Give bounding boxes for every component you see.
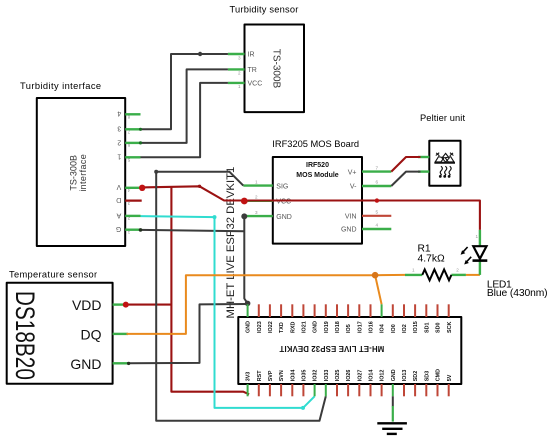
bend dot VCC line right	[375, 198, 379, 202]
ESP32 bottom pin IO35	[302, 370, 308, 397]
ESP32 bottom pin IO14	[369, 370, 375, 397]
svg-text:DQ: DQ	[81, 326, 102, 342]
ESP32 top pin IO19	[324, 304, 330, 333]
svg-text:2: 2	[238, 71, 241, 76]
svg-text:Blue (430nm): Blue (430nm)	[487, 288, 548, 299]
wire black G pin to MOS GND vertical	[141, 230, 245, 231]
svg-text:IO19: IO19	[324, 321, 330, 333]
ESP32 bottom pin IO12	[380, 370, 386, 397]
bend dot cyan 2	[301, 406, 305, 410]
wire IR net: interface pin3 to sensor IR	[141, 54, 228, 129]
svg-text:RST: RST	[257, 370, 263, 381]
turbidity sensor pin TR	[228, 67, 257, 76]
svg-text:SD2: SD2	[413, 371, 419, 382]
svg-text:MH-ET LIVE ESP32 DEVKIT: MH-ET LIVE ESP32 DEVKIT	[279, 344, 384, 353]
svg-text:IO32: IO32	[313, 370, 319, 382]
svg-text:IO15: IO15	[413, 321, 419, 333]
svg-text:2: 2	[127, 216, 130, 221]
svg-text:IO16: IO16	[369, 321, 375, 333]
svg-text:4: 4	[117, 110, 121, 117]
ESP32 bottom pin IO34	[290, 370, 296, 397]
junction dot SIG corner	[154, 170, 158, 174]
svg-text:7: 7	[127, 130, 130, 135]
ESP32 top pin IO21	[302, 304, 308, 333]
svg-text:RXD: RXD	[290, 322, 296, 333]
interface pin 7 label 3	[117, 125, 140, 135]
peltier unit P1 body	[420, 113, 465, 186]
ground symbol	[377, 423, 407, 434]
MOS pin GND left	[243, 210, 292, 221]
interface pin 5 label 1	[117, 153, 140, 163]
svg-text:2: 2	[117, 138, 121, 145]
svg-text:IO21: IO21	[302, 321, 308, 333]
temp sensor pin GND	[70, 356, 128, 372]
peltier icon	[434, 153, 455, 163]
svg-text:D: D	[116, 196, 121, 203]
svg-text:1: 1	[117, 153, 121, 160]
svg-text:4: 4	[376, 223, 379, 228]
svg-text:V+: V+	[348, 169, 357, 176]
svg-text:IO33: IO33	[324, 370, 330, 382]
svg-text:GND: GND	[70, 356, 101, 372]
ESP32 bottom pin IO26	[346, 370, 352, 397]
svg-text:3: 3	[117, 125, 121, 132]
svg-text:IO23: IO23	[257, 321, 263, 333]
wire red vertical branch to 3V3	[171, 186, 249, 394]
peltier pin 1	[418, 156, 429, 158]
svg-text:IO35: IO35	[302, 370, 308, 382]
svg-text:TR: TR	[248, 67, 257, 74]
svg-text:MH-ET LIVE ESP32 DEVKIT1: MH-ET LIVE ESP32 DEVKIT1	[225, 167, 237, 319]
LED1	[461, 230, 548, 299]
svg-text:IO17: IO17	[357, 321, 363, 333]
svg-text:3: 3	[127, 201, 130, 206]
ESP32 top pin IO15	[413, 304, 419, 333]
svg-text:G: G	[116, 225, 121, 232]
svg-text:3: 3	[238, 55, 241, 60]
wire red MOS V+ to peltier pin1	[391, 157, 420, 172]
svg-text:7: 7	[376, 165, 379, 170]
svg-text:GND: GND	[341, 227, 357, 234]
svg-text:SVN: SVN	[279, 370, 285, 381]
svg-text:1: 1	[476, 234, 479, 239]
wire cyan A net to IO32	[141, 216, 315, 408]
wire end dot pin3	[139, 128, 142, 131]
ESP32 bottom pin IO13	[402, 370, 408, 397]
ESP32 bottom pin GND	[391, 369, 397, 396]
svg-text:IO13: IO13	[402, 370, 408, 382]
svg-text:Temperature sensor: Temperature sensor	[9, 269, 97, 279]
turbidity interface U3 body	[20, 81, 125, 246]
svg-text:A: A	[116, 211, 121, 218]
wire black SIG net from MOS SIG to IO33	[156, 172, 326, 421]
svg-text:IRF520: IRF520	[306, 162, 329, 169]
svg-text:3: 3	[255, 210, 258, 215]
MOS pin V+	[348, 165, 392, 176]
svg-text:V-: V-	[350, 184, 357, 191]
ESP32 bottom pin RST	[257, 370, 263, 396]
ESP32 top pin IO5	[346, 304, 352, 333]
wire black MOS GND down to ESP32 GND	[244, 216, 247, 303]
ESP32 bottom pin IO27	[357, 370, 363, 397]
MOS pin V-	[350, 180, 391, 191]
wire red V to MOS VCC and LED	[141, 186, 480, 230]
ESP32 bottom pin CMD	[436, 369, 442, 396]
svg-text:Peltier unit: Peltier unit	[420, 113, 465, 123]
interface pin 6 label 2	[117, 138, 140, 148]
bend dot red	[198, 185, 201, 188]
MOS pin VIN (unconnected red stub)	[345, 210, 391, 221]
ESP32 bottom pin SVP	[268, 370, 274, 396]
svg-text:SVP: SVP	[268, 370, 274, 381]
wire end dot G pin	[139, 228, 143, 232]
wire orange DQ net to IO4 and R1	[127, 275, 406, 334]
junction dot MOS GND	[241, 213, 247, 219]
svg-text:2: 2	[456, 268, 459, 273]
svg-text:IR: IR	[248, 52, 255, 59]
wire orange branch to IO4	[375, 275, 382, 304]
svg-text:Turbidity sensor: Turbidity sensor	[230, 5, 299, 15]
svg-text:SD0: SD0	[436, 323, 442, 334]
svg-text:2: 2	[255, 195, 258, 200]
ESP32 bottom pin SD3	[424, 371, 430, 397]
wire orange R1 to LED	[466, 274, 480, 276]
svg-text:V: V	[116, 183, 121, 190]
svg-text:IO22: IO22	[268, 321, 274, 333]
peltier heat squiggles	[440, 167, 452, 178]
wire green into ground symbol	[392, 406, 394, 422]
svg-text:interface: interface	[78, 154, 88, 192]
interface pin 4 label V	[116, 183, 140, 193]
IRF3205 MOS board U4 body	[272, 139, 362, 244]
svg-text:IO26: IO26	[346, 370, 352, 382]
svg-text:SCK: SCK	[447, 322, 453, 333]
ESP32 top pin GND	[246, 304, 252, 333]
ESP32 devkit U5 body	[225, 167, 461, 384]
svg-text:IO25: IO25	[335, 370, 341, 382]
svg-text:TXD: TXD	[279, 322, 285, 333]
wire black temp GND to ESP32 GND	[128, 304, 246, 363]
svg-text:8: 8	[127, 115, 130, 120]
svg-text:1: 1	[412, 268, 415, 273]
ESP32 top pin IO18	[335, 304, 341, 333]
ESP32 top pin SD0	[436, 304, 442, 333]
ESP32 top pin IO2	[402, 304, 408, 333]
ESP32 top pin IO17	[357, 304, 363, 333]
ESP32 bottom pin 5V	[447, 374, 453, 396]
ESP32 bottom pin SVN	[279, 370, 285, 396]
svg-text:6: 6	[127, 143, 130, 148]
turbidity sensor pin VCC	[228, 81, 262, 90]
wire red VDD from temp sensor	[128, 304, 171, 306]
temp sensor pin DQ	[81, 326, 129, 342]
ESP32 top pin IO16	[369, 304, 375, 333]
resistor R1	[405, 243, 466, 280]
svg-text:GND: GND	[391, 369, 397, 381]
ESP32 top pin IO0	[391, 304, 397, 333]
svg-text:IO4: IO4	[380, 324, 386, 333]
svg-text:MOS Module: MOS Module	[296, 172, 338, 179]
svg-text:SD3: SD3	[424, 371, 430, 382]
wire end dot temp GND	[127, 362, 130, 365]
wire end dot pin2	[139, 141, 142, 144]
svg-text:IO27: IO27	[357, 370, 363, 382]
ESP32 top pin IO22	[268, 304, 274, 333]
svg-text:SD1: SD1	[424, 323, 430, 334]
MOS pin SIG	[243, 179, 288, 190]
ESP32 top pin IO23	[257, 304, 263, 333]
svg-text:5: 5	[376, 210, 379, 215]
svg-text:GND: GND	[276, 214, 292, 221]
ESP32 bottom pin 3V3	[246, 372, 252, 397]
svg-text:3V3: 3V3	[246, 372, 252, 382]
svg-text:4: 4	[127, 188, 130, 193]
ESP32 bottom pin IO32	[313, 370, 319, 397]
ESP32 top pin SCK	[447, 304, 453, 333]
junction dot VCC line at MOS	[241, 198, 248, 205]
ESP32 top pin SD1	[424, 304, 430, 333]
interface pin 1 label G	[116, 225, 141, 235]
svg-text:IO2: IO2	[402, 324, 408, 333]
svg-text:4.7kΩ: 4.7kΩ	[418, 254, 445, 265]
interface pin 8 label 4	[117, 110, 140, 120]
svg-text:IO18: IO18	[335, 321, 341, 333]
bend dot cyan 1	[213, 215, 217, 219]
junction dot orange	[372, 272, 379, 279]
svg-text:VDD: VDD	[72, 297, 102, 313]
peltier pin 2	[418, 170, 429, 172]
wire VCC net: interface pin1 to sensor VCC	[141, 83, 228, 157]
svg-text:Turbidity interface: Turbidity interface	[20, 81, 102, 91]
ESP32 bottom pin IO25	[335, 370, 341, 397]
ESP32 bottom pin SD2	[413, 371, 419, 397]
interface pin 2 label A	[116, 211, 140, 221]
svg-text:5V: 5V	[447, 374, 453, 381]
junction dot V pin	[139, 185, 145, 191]
temp sensor pin VDD	[72, 297, 128, 313]
svg-text:TS-300B: TS-300B	[271, 49, 282, 89]
ESP32 top pin IO4	[380, 304, 386, 333]
MOS pin VCC	[243, 195, 291, 206]
wire black from ESP32 GND pin	[392, 396, 394, 406]
svg-text:DS18B20: DS18B20	[10, 291, 40, 380]
svg-text:SIG: SIG	[276, 183, 288, 190]
svg-text:1: 1	[255, 179, 258, 184]
svg-text:IO5: IO5	[346, 324, 352, 333]
svg-text:IRF3205 MOS Board: IRF3205 MOS Board	[272, 139, 359, 149]
svg-text:VCC: VCC	[248, 81, 263, 88]
wire black MOS V- to peltier pin2	[391, 172, 420, 186]
svg-text:IO0: IO0	[391, 324, 397, 333]
ESP32 bottom pin IO33	[324, 370, 330, 397]
svg-text:GND: GND	[246, 321, 252, 333]
svg-text:IO14: IO14	[369, 370, 375, 382]
ESP32 top pin GND	[313, 304, 319, 333]
junction on IR wire	[198, 52, 202, 56]
svg-text:1: 1	[238, 84, 241, 89]
turbidity sensor U2 body	[230, 5, 305, 113]
svg-text:1: 1	[127, 230, 130, 235]
ESP32 top pin RXD	[290, 304, 296, 333]
temperature sensor U1 body	[7, 269, 113, 384]
junction dot ESP32 top GND	[245, 301, 251, 307]
wire TR net: interface pin2 to sensor TR	[141, 69, 228, 142]
svg-text:GND: GND	[313, 321, 319, 333]
interface pin 3 label D (unconnected red stub)	[116, 196, 141, 206]
svg-text:6: 6	[376, 180, 379, 185]
MOS pin GND right	[341, 223, 391, 234]
svg-text:IO34: IO34	[290, 370, 296, 382]
svg-text:CMD: CMD	[436, 369, 442, 381]
turbidity sensor pin IR	[228, 52, 255, 61]
svg-text:5: 5	[127, 158, 130, 163]
svg-text:IO12: IO12	[380, 370, 386, 382]
junction dot VDD	[123, 302, 129, 308]
svg-text:VIN: VIN	[345, 214, 357, 221]
ESP32 top pin TXD	[279, 304, 285, 333]
